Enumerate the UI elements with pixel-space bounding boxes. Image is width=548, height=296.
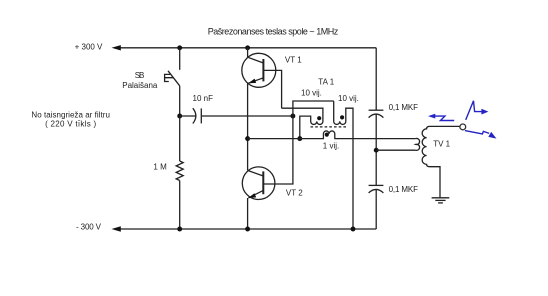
resistor 1M: [176, 161, 183, 181]
node rail to VT1 collector: [245, 45, 250, 50]
wire switch lower lead: [179, 86, 181, 116]
node capacitor to VT2 base vertical: [290, 114, 295, 119]
wire +300V rail down to capacitor divider: [375, 48, 377, 110]
node divider mid to TV1 primary: [374, 148, 379, 153]
svg-text:0,1 MKF: 0,1 MKF: [389, 185, 419, 194]
polarity dot TA1 1 vij winding: [325, 133, 329, 137]
node switch/resistor/capacitor: [177, 114, 182, 119]
transformer TA1 winding 1 vij with feedback line: [248, 131, 416, 139]
svg-text:10 nF: 10 nF: [193, 94, 214, 103]
svg-text:1 M: 1 M: [153, 162, 167, 171]
arrow -300V left: [112, 226, 121, 231]
svg-text:TV 1: TV 1: [433, 140, 450, 149]
svg-text:+ 300 V: + 300 V: [75, 43, 103, 52]
transistor VT2: [242, 167, 275, 229]
node TA1 right winding to -300V rail: [351, 227, 356, 232]
wire divider mid to TV1 primary bottom: [376, 149, 415, 151]
transformer TV1 secondary: [422, 126, 460, 197]
transistor VT1: [242, 48, 276, 88]
svg-text:TA 1: TA 1: [318, 77, 334, 86]
svg-text:10 vij.: 10 vij.: [338, 94, 359, 103]
capacitor 0,1 MKF top: [369, 110, 384, 117]
terminal output: [460, 124, 466, 130]
spark arrow lower right: [465, 131, 497, 139]
capacitor 10 nF: [193, 108, 202, 123]
transformer TA1 winding right 10 vij: [334, 101, 353, 229]
capacitor 0,1 MKF bottom: [369, 185, 384, 193]
wire capacitor right lead to VT2 base node: [201, 115, 293, 117]
wire resistor lower lead: [179, 181, 181, 230]
switch SB blade: [168, 71, 180, 86]
wire capacitor left lead: [180, 115, 196, 117]
node VT2 emitter to -300V rail: [245, 227, 250, 232]
wire bottom -300V rail: [119, 228, 376, 230]
transformer TV1 primary: [416, 138, 420, 150]
svg-text:Palaišana: Palaišana: [122, 81, 158, 90]
spark arrow top: [466, 101, 489, 120]
node rail to switch branch: [177, 45, 182, 50]
wire bottom capacitor to -300V rail: [375, 190, 377, 229]
polarity dot TA1 right winding: [340, 115, 344, 119]
ground: [432, 198, 450, 203]
wire top +300V rail: [119, 47, 376, 49]
wire switch upper lead: [179, 48, 181, 70]
wire VT2 base node up to TA1 top: [293, 101, 334, 116]
svg-text:10 vij.: 10 vij.: [301, 88, 322, 97]
transformer TA1 winding left 10 vij: [282, 108, 323, 138]
node resistor to -300V rail: [177, 227, 182, 232]
node left winding to feedback line: [297, 136, 302, 141]
svg-text:SB: SB: [135, 71, 145, 80]
switch SB pushbutton actuator: [165, 74, 174, 81]
wire between capacitors: [375, 114, 377, 185]
wire VT1 base: [263, 70, 281, 108]
wire VT2 base: [263, 116, 293, 184]
svg-text:Pašrezonanses teslas spole ~ 1: Pašrezonanses teslas spole ~ 1MHz: [208, 26, 339, 36]
svg-text:( 220 V tīkls ): ( 220 V tīkls ): [45, 119, 96, 128]
svg-text:VT 2: VT 2: [286, 189, 303, 198]
polarity dot TA1 left winding: [317, 116, 321, 120]
svg-text:1 vij.: 1 vij.: [323, 141, 339, 150]
transformer TA1 core: [311, 126, 347, 128]
spark arrow left: [428, 114, 454, 121]
wire VT1 emitter to VT2 collector mid rail: [247, 83, 249, 170]
arrow +300V left: [112, 45, 121, 50]
node mid rail to feedback line: [245, 136, 250, 141]
wire resistor upper lead: [179, 116, 181, 161]
svg-text:- 300 V: - 300 V: [76, 222, 102, 231]
svg-text:0,1 MKF: 0,1 MKF: [389, 103, 419, 112]
svg-text:VT 1: VT 1: [285, 56, 302, 65]
